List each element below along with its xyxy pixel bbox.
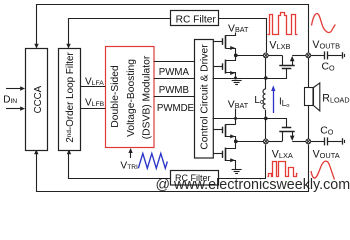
svg-text:RC Filter: RC Filter bbox=[176, 15, 217, 26]
wire PWMB bbox=[154, 78, 195, 80]
waveform PWM VLXB (red) bbox=[268, 13, 298, 35]
block DSVB modulator (red dashed) bbox=[106, 47, 155, 148]
wire feedback bottom B (VLXA to bottom RC filter) bbox=[69, 151, 171, 179]
ground B bbox=[232, 81, 242, 85]
svg-text:2nd-Order Loop Filter: 2nd-Order Loop Filter bbox=[65, 51, 76, 142]
node VLXA bbox=[263, 139, 268, 144]
waveform sine VOUTA (red) bbox=[311, 161, 335, 179]
wire feedback top A (VOUTB to CCCA) bbox=[37, 5, 309, 53]
junction dot NMOS-B source at rail bbox=[234, 77, 237, 80]
inductor LO bbox=[263, 89, 266, 109]
waveform triangle wave (blue) bbox=[138, 153, 167, 168]
svg-text:VLFB: VLFB bbox=[85, 97, 105, 108]
wire bbox=[219, 145, 266, 179]
wire inductor to VLXA node bbox=[265, 110, 267, 139]
transistor NMOS A-side bbox=[213, 142, 236, 170]
wire junction B to VLXB node bbox=[236, 55, 264, 57]
svg-text:VLFA: VLFA bbox=[85, 76, 104, 87]
block Control Circuit & Driver bbox=[195, 40, 214, 159]
arrowhead into CCCA bottom bbox=[34, 149, 38, 154]
arrowhead into Loop Filter top bbox=[66, 44, 70, 49]
wire gate rail A bbox=[213, 119, 287, 128]
svg-text:DIN: DIN bbox=[3, 94, 17, 105]
svg-text:RLOAD: RLOAD bbox=[322, 93, 349, 105]
transistor series FET B bbox=[268, 55, 306, 68]
node VOUTA bbox=[306, 139, 311, 144]
svg-text:CO: CO bbox=[320, 126, 334, 137]
svg-text:Control Circuit & Driver: Control Circuit & Driver bbox=[200, 44, 211, 150]
block 2nd-Order Loop Filter bbox=[59, 49, 81, 151]
svg-text:VBAT: VBAT bbox=[228, 23, 249, 34]
wire PWMDE bbox=[154, 96, 195, 98]
svg-text:VOUTB: VOUTB bbox=[312, 39, 340, 51]
svg-text:@ www.electronicsweekly.com: @ www.electronicsweekly.com bbox=[156, 177, 350, 193]
svg-text:CCCA: CCCA bbox=[33, 85, 44, 113]
wire VBAT stub A bbox=[235, 109, 237, 125]
ground A bbox=[232, 170, 242, 174]
transistor PMOS B-side bbox=[213, 35, 236, 55]
junction dot VBAT stub at rail A bbox=[234, 117, 237, 120]
wire VBAT stub to PMOS drain bbox=[226, 33, 236, 36]
wire junction A to VLXA node bbox=[236, 141, 264, 143]
svg-text:PWMDE: PWMDE bbox=[157, 103, 195, 114]
capacitor CO top bbox=[311, 51, 345, 59]
svg-text:(DSVB) Modulator: (DSVB) Modulator bbox=[142, 55, 153, 139]
wire VLFA bbox=[81, 86, 106, 88]
svg-text:VLXA: VLXA bbox=[272, 148, 293, 160]
svg-text:VBAT: VBAT bbox=[228, 99, 249, 110]
junction dot gate rail A bbox=[264, 117, 268, 121]
node VLXB bbox=[263, 53, 268, 58]
wire VTRI arrow into modulator bbox=[130, 150, 132, 158]
junction dot half-bridge A bbox=[234, 140, 238, 144]
wire feedback top B (VLXB to RC filter to Loop Filter) bbox=[69, 19, 171, 47]
wire gate/gnd rail B bbox=[213, 69, 287, 79]
arrow ILo (blue) bbox=[273, 89, 275, 114]
transistor NMOS B-side bbox=[213, 56, 236, 79]
waveform PWM VLXA (red) bbox=[268, 162, 298, 177]
svg-text:VLXB: VLXB bbox=[269, 40, 290, 52]
svg-text:ILo: ILo bbox=[279, 96, 289, 108]
node VOUTB bbox=[306, 53, 311, 58]
svg-text:CO: CO bbox=[322, 62, 336, 73]
transistor PMOS A-side bbox=[213, 124, 236, 141]
wire VLFB bbox=[81, 108, 106, 110]
wire bbox=[219, 19, 267, 53]
svg-text:Double-Sided: Double-Sided bbox=[110, 65, 121, 128]
wire VOUTB node down to speaker bbox=[308, 58, 310, 88]
capacitor CO bottom bbox=[311, 137, 345, 145]
transistor series FET A bbox=[268, 128, 306, 142]
svg-text:PWMA: PWMA bbox=[159, 67, 190, 78]
wire speaker to VOUTA node bbox=[308, 106, 310, 140]
node DIN input arrows bbox=[6, 89, 22, 109]
block CCCA bbox=[26, 49, 48, 151]
junction dot gate rail B bbox=[264, 76, 268, 80]
svg-text:Voltage-Boosting: Voltage-Boosting bbox=[126, 59, 137, 137]
waveform sine VOUTB (red) bbox=[312, 13, 336, 32]
arrowhead into CCCA top bbox=[34, 44, 38, 49]
speaker RLOAD bbox=[305, 83, 320, 111]
block RC Filter bottom bbox=[171, 171, 219, 186]
svg-text:VOUTA: VOUTA bbox=[313, 148, 340, 160]
junction dot half-bridge B bbox=[234, 54, 238, 58]
block RC Filter top bbox=[171, 11, 219, 26]
svg-text:VTRI: VTRI bbox=[120, 160, 138, 171]
svg-text:PWMB: PWMB bbox=[159, 85, 189, 96]
wire column VLXB down to inductor bbox=[265, 58, 267, 90]
arrowhead into Loop Filter bottom bbox=[67, 149, 71, 154]
wire PWMA bbox=[154, 61, 195, 63]
wire feedback bottom A (VOUTA to CCCA) bbox=[37, 145, 309, 192]
